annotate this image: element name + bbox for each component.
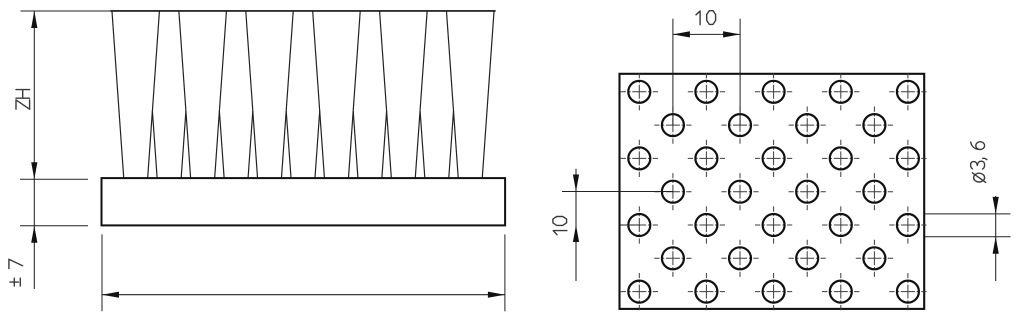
hole 22 with centre mark: [822, 206, 859, 243]
hole 4 with centre mark: [822, 73, 859, 110]
brush base bar: [102, 178, 506, 225]
ZH dimension line with arrows: [33, 11, 35, 179]
extension line (ZH top): [21, 10, 111, 12]
bristle tuft 2: [148, 11, 160, 179]
ZH dimension label: [16, 90, 30, 110]
extension line (hole row 4): [562, 191, 673, 193]
bristle tuft 9: [380, 11, 392, 179]
hole 14 with centre mark: [889, 140, 926, 177]
hole 23 with centre mark: [889, 206, 926, 243]
hole 17 with centre mark: [789, 173, 826, 210]
left 10 upper arrowhead: [573, 175, 579, 192]
hole 15 with centre mark: [654, 173, 691, 210]
hole 29 with centre mark: [688, 273, 725, 310]
hole 5 with centre mark: [889, 73, 926, 110]
diameter lower arrowhead: [993, 237, 999, 254]
hole 18 with centre mark: [856, 173, 893, 210]
bristle tuft 7: [313, 11, 325, 179]
bristle tuft 11: [447, 11, 459, 179]
ZH dimension bottom arrowhead: [31, 162, 37, 179]
top 10 dimension line: [673, 33, 740, 35]
hole 31 with centre mark: [822, 273, 859, 310]
top 10 left arrowhead: [673, 31, 690, 37]
hole 20 with centre mark: [688, 206, 725, 243]
diameter 3,6 dimension label: [971, 142, 987, 183]
hole 8 with centre mark: [789, 107, 826, 144]
plus/minus 7 dimension line: [33, 179, 35, 289]
extension line (hole column 1): [672, 19, 674, 125]
bristle tuft 8: [348, 11, 360, 179]
hole 30 with centre mark: [755, 273, 792, 310]
bristle tuft 10: [415, 11, 427, 179]
hole 10 with centre mark: [621, 140, 658, 177]
hole 1 with centre mark: [621, 73, 658, 110]
bristle tuft 6: [281, 11, 293, 179]
top 10 right arrowhead: [723, 31, 740, 37]
extension line (hole column 2): [739, 19, 741, 125]
brush bristle top edge line: [111, 10, 496, 12]
hole 9 with centre mark: [856, 107, 893, 144]
hole 7 with centre mark: [721, 107, 758, 144]
diameter dimension line: [995, 196, 997, 281]
bristle tuft 12: [482, 11, 494, 179]
extension line (hole top tangent): [925, 213, 1011, 215]
mounting plate outline: [620, 74, 925, 309]
hole 13 with centre mark: [822, 140, 859, 177]
hole 12 with centre mark: [755, 140, 792, 177]
base width dimension line: [102, 294, 505, 296]
hole 2 with centre mark: [688, 73, 725, 110]
hole 32 with centre mark: [889, 273, 926, 310]
bristle tuft 3: [179, 11, 191, 179]
hole 3 with centre mark: [755, 73, 792, 110]
base width right arrowhead: [488, 292, 505, 298]
bristle tuft 5: [246, 11, 258, 179]
left 10 dimension line: [575, 169, 577, 281]
hole 28 with centre mark: [621, 273, 658, 310]
hole 26 with centre mark: [789, 240, 826, 277]
top 10 dimension label: [696, 11, 716, 25]
plus/minus 7 up arrowhead: [31, 226, 37, 243]
hole 19 with centre mark: [621, 206, 658, 243]
extension line (base right): [504, 234, 506, 311]
extension line (hole row 5): [620, 224, 640, 226]
hole 27 with centre mark: [856, 240, 893, 277]
base width left arrowhead: [102, 292, 119, 298]
extension line (hole bottom tangent): [925, 236, 1011, 238]
extension line (base left): [101, 234, 103, 311]
extension line (base top): [20, 178, 88, 180]
ZH dimension top arrowhead: [31, 11, 37, 28]
hole 24 with centre mark: [654, 240, 691, 277]
extension line (base bottom): [20, 225, 88, 227]
hole 11 with centre mark: [688, 140, 725, 177]
hole 25 with centre mark: [721, 240, 758, 277]
diameter upper arrowhead: [993, 197, 999, 214]
left 10 lower arrowhead: [573, 225, 579, 242]
hole 16 with centre mark: [721, 173, 758, 210]
left 10 dimension label: [553, 217, 567, 235]
bristle tuft 1: [112, 11, 124, 179]
hole 6 with centre mark: [654, 107, 691, 144]
plus/minus 7 dimension label: [9, 259, 23, 286]
bristle tuft 4: [215, 11, 227, 179]
hole 21 with centre mark: [755, 206, 792, 243]
